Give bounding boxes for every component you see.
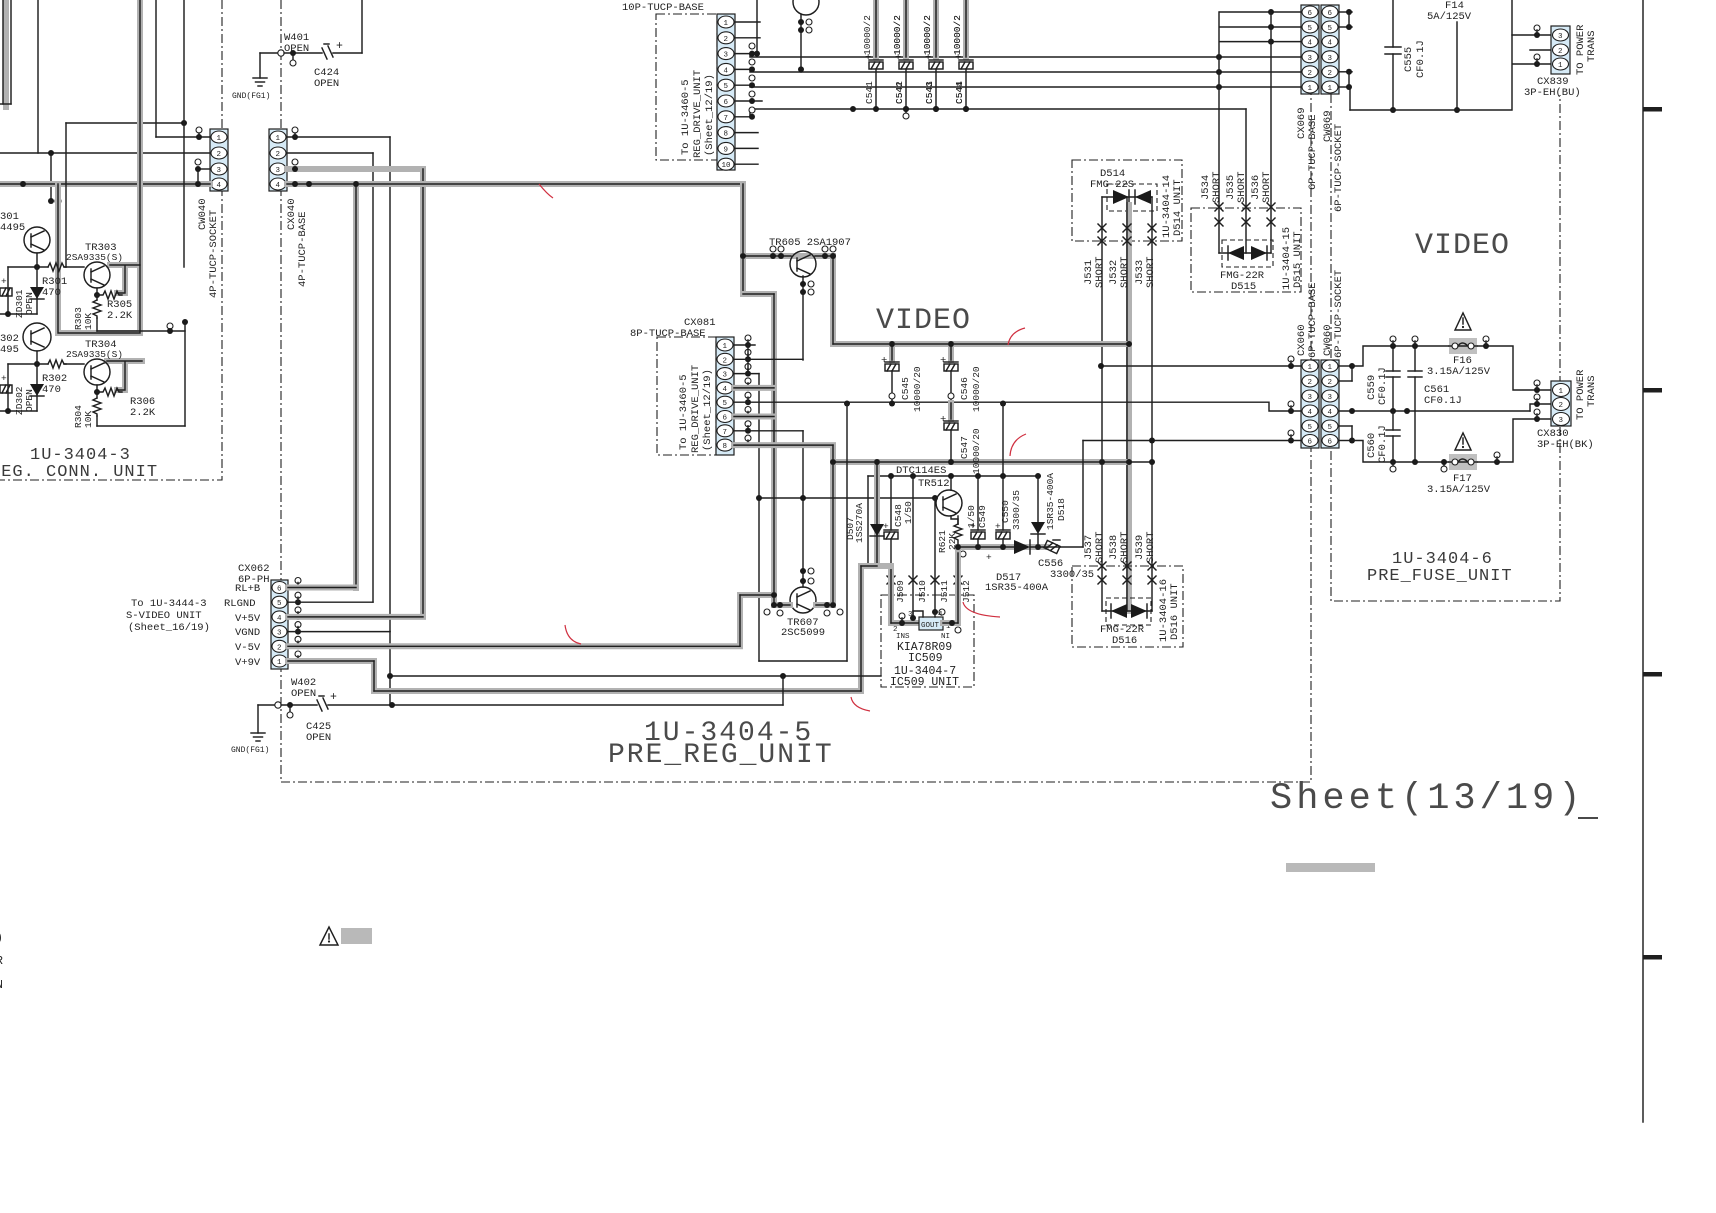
svg-text:To 1U-3444-3: To 1U-3444-3	[131, 598, 207, 610]
svg-text:10000/2: 10000/2	[892, 15, 903, 55]
svg-text:1SS270A: 1SS270A	[854, 503, 865, 543]
svg-text:2: 2	[723, 357, 728, 365]
svg-text:FMG-22S: FMG-22S	[1090, 179, 1134, 191]
svg-text:+: +	[1, 373, 7, 384]
svg-text:3.15A/125V: 3.15A/125V	[1427, 484, 1491, 496]
svg-text:4: 4	[1328, 40, 1333, 48]
svg-text:2.2K: 2.2K	[107, 310, 133, 322]
svg-text:3: 3	[723, 372, 728, 380]
svg-text:GOUT: GOUT	[921, 622, 940, 630]
svg-text:R: R	[0, 955, 3, 968]
svg-text:4: 4	[276, 182, 281, 190]
svg-text:SHORT: SHORT	[1094, 531, 1106, 563]
svg-text:VIDEO: VIDEO	[1415, 229, 1510, 263]
svg-text:+: +	[1, 276, 7, 287]
svg-text:S-VIDEO UNIT: S-VIDEO UNIT	[126, 610, 202, 622]
svg-text:J511: J511	[939, 580, 950, 603]
svg-text:3P-EH(BK): 3P-EH(BK)	[1537, 439, 1594, 451]
svg-text:SHORT: SHORT	[1145, 256, 1157, 288]
svg-text:(Sheet_12/19): (Sheet_12/19)	[704, 74, 716, 156]
svg-text:SHORT: SHORT	[1094, 256, 1106, 288]
svg-text:2: 2	[1328, 70, 1333, 78]
svg-text:2SA9335(S): 2SA9335(S)	[66, 252, 123, 263]
svg-text:C547: C547	[959, 436, 970, 459]
svg-text:2: 2	[277, 644, 282, 652]
svg-text:8P-TUCP-BASE: 8P-TUCP-BASE	[630, 328, 706, 340]
svg-text:5: 5	[1308, 25, 1313, 33]
svg-text:C542: C542	[894, 81, 905, 104]
svg-text:(Sheet_16/19): (Sheet_16/19)	[128, 622, 210, 634]
svg-text:1/50: 1/50	[966, 505, 977, 528]
svg-text:1: 1	[277, 659, 282, 667]
svg-text:6P-TUCP-BASE: 6P-TUCP-BASE	[1307, 282, 1319, 358]
svg-text:3: 3	[277, 630, 282, 638]
svg-text:3300/35: 3300/35	[1011, 490, 1022, 530]
svg-text:SHORT: SHORT	[1261, 171, 1273, 203]
svg-text:4495: 4495	[0, 222, 25, 234]
svg-text:C541: C541	[864, 81, 875, 104]
svg-text:C545: C545	[900, 377, 911, 400]
svg-text:CF0.1J: CF0.1J	[1415, 40, 1427, 78]
svg-text:C550: C550	[1000, 500, 1011, 523]
svg-text:2: 2	[1328, 379, 1333, 387]
svg-text:GND(FG1): GND(FG1)	[232, 92, 270, 101]
svg-text:6: 6	[277, 586, 282, 594]
svg-text:CF0.1J: CF0.1J	[1424, 395, 1462, 407]
svg-text:+: +	[881, 355, 887, 367]
svg-text:GND(FG1): GND(FG1)	[231, 746, 269, 755]
svg-text:6: 6	[723, 415, 728, 423]
svg-text:4P-TUCP-BASE: 4P-TUCP-BASE	[297, 211, 309, 287]
svg-text:1: 1	[724, 20, 729, 28]
svg-text:J512: J512	[961, 580, 972, 603]
svg-text:OPEN: OPEN	[306, 732, 331, 744]
svg-text:C543: C543	[924, 81, 935, 104]
svg-text:4P-TUCP-SOCKET: 4P-TUCP-SOCKET	[208, 210, 220, 298]
svg-text:RLGND: RLGND	[224, 598, 256, 610]
svg-text:J509: J509	[895, 580, 906, 603]
svg-text:To 1U-3460-5: To 1U-3460-5	[678, 374, 690, 450]
svg-text:Sheet(13/19): Sheet(13/19)	[1270, 778, 1584, 820]
svg-text:1: 1	[1328, 85, 1333, 93]
svg-text:D515: D515	[1231, 281, 1256, 293]
svg-text:N: N	[0, 979, 3, 992]
svg-text:D518: D518	[1056, 498, 1067, 521]
svg-text:4: 4	[1328, 409, 1333, 417]
svg-text:+: +	[336, 40, 343, 53]
svg-text:4: 4	[1308, 40, 1313, 48]
svg-text:3300/35: 3300/35	[1050, 569, 1094, 581]
svg-text:6: 6	[724, 99, 729, 107]
svg-text:470: 470	[42, 384, 61, 396]
svg-text:(Sheet_12/19): (Sheet_12/19)	[702, 369, 714, 451]
svg-text:C546: C546	[959, 377, 970, 400]
svg-text:1SR35-400A: 1SR35-400A	[1045, 473, 1056, 530]
svg-text:495: 495	[0, 344, 19, 356]
svg-text:To 1U-3460-5: To 1U-3460-5	[680, 79, 692, 155]
svg-text:REG. CONN. UNIT: REG. CONN. UNIT	[0, 463, 158, 482]
svg-text:3: 3	[724, 52, 729, 60]
svg-text:TRANS: TRANS	[1586, 30, 1598, 62]
svg-text:6P-TUCP-SOCKET: 6P-TUCP-SOCKET	[1333, 270, 1345, 358]
svg-text:10000/20: 10000/20	[912, 366, 923, 412]
svg-text:3: 3	[1308, 394, 1313, 402]
svg-text:5: 5	[724, 83, 729, 91]
svg-text:V+9V: V+9V	[235, 657, 261, 669]
svg-text:+: +	[330, 691, 337, 704]
svg-text:D516: D516	[1112, 635, 1137, 647]
svg-text:4: 4	[723, 386, 728, 394]
svg-text:D516 UNIT: D516 UNIT	[1169, 583, 1181, 640]
svg-text:10000/2: 10000/2	[862, 15, 873, 55]
svg-text:1: 1	[1308, 85, 1313, 93]
svg-text:TRANS: TRANS	[1586, 375, 1598, 407]
svg-text:REG_DRIVE_UNIT: REG_DRIVE_UNIT	[690, 365, 702, 453]
svg-text:C549: C549	[977, 505, 988, 528]
svg-text:DTC114ES: DTC114ES	[896, 465, 946, 477]
svg-text:+: +	[986, 552, 992, 563]
svg-text:SHORT: SHORT	[1119, 256, 1131, 288]
svg-text:2: 2	[1308, 70, 1313, 78]
svg-text:VIDEO: VIDEO	[876, 304, 971, 338]
svg-text:6P-TUCP-SOCKET: 6P-TUCP-SOCKET	[1333, 124, 1345, 212]
svg-text:C544: C544	[954, 81, 965, 104]
svg-text:2: 2	[1558, 48, 1563, 56]
svg-text:C555: C555	[1403, 47, 1415, 72]
svg-text:3: 3	[1559, 417, 1564, 425]
svg-text:D514 UNIT: D514 UNIT	[1172, 179, 1184, 236]
svg-text:2SA9335(S): 2SA9335(S)	[66, 349, 123, 360]
svg-text:2.2K: 2.2K	[130, 407, 156, 419]
svg-text:470: 470	[42, 287, 61, 299]
svg-text:6: 6	[1328, 439, 1333, 447]
svg-text:10: 10	[722, 162, 732, 170]
svg-text:10000/20: 10000/20	[971, 366, 982, 412]
svg-text:NI: NI	[941, 633, 950, 641]
svg-text:10000/2: 10000/2	[922, 15, 933, 55]
svg-text:3: 3	[1308, 55, 1313, 63]
svg-text:10K: 10K	[83, 313, 94, 330]
svg-text:V-5V: V-5V	[235, 642, 261, 654]
svg-text:1: 1	[217, 135, 222, 143]
svg-text:RL+B: RL+B	[235, 583, 260, 595]
svg-text:IC509: IC509	[908, 652, 943, 665]
svg-text:PRE_FUSE_UNIT: PRE_FUSE_UNIT	[1367, 567, 1513, 586]
svg-text:IC509 UNIT: IC509 UNIT	[890, 676, 959, 689]
svg-text:2: 2	[276, 151, 281, 159]
svg-text:TR512: TR512	[918, 478, 950, 490]
svg-text:3.15A/125V: 3.15A/125V	[1427, 366, 1491, 378]
svg-text:1: 1	[1559, 388, 1564, 396]
svg-text:3: 3	[1328, 394, 1333, 402]
svg-text:1: 1	[1308, 364, 1313, 372]
svg-text:OPEN: OPEN	[24, 389, 35, 412]
svg-text:SHORT: SHORT	[1145, 531, 1157, 563]
svg-text:2: 2	[1308, 379, 1313, 387]
svg-text:SHORT: SHORT	[1236, 171, 1248, 203]
svg-text:5: 5	[1308, 424, 1313, 432]
svg-text:10P-TUCP-BASE: 10P-TUCP-BASE	[622, 2, 704, 14]
svg-text:5: 5	[723, 400, 728, 408]
svg-text:2: 2	[1559, 402, 1564, 410]
svg-text:4: 4	[1308, 409, 1313, 417]
svg-text:10000/2: 10000/2	[952, 15, 963, 55]
svg-text:3: 3	[1328, 55, 1333, 63]
svg-text:7: 7	[724, 115, 729, 123]
svg-text:4: 4	[724, 67, 729, 75]
svg-text:SHORT: SHORT	[1211, 171, 1223, 203]
svg-text:1: 1	[276, 135, 281, 143]
svg-text:OPEN: OPEN	[24, 292, 35, 315]
svg-text:5: 5	[1328, 25, 1333, 33]
svg-text:D515 UNIT: D515 UNIT	[1292, 231, 1304, 288]
svg-text:CF0.1J: CF0.1J	[1377, 425, 1389, 463]
svg-text:4: 4	[277, 615, 282, 623]
svg-text:OPEN: OPEN	[291, 688, 316, 700]
svg-text:1: 1	[1558, 62, 1563, 70]
svg-text:6: 6	[1308, 439, 1313, 447]
svg-text:4: 4	[217, 182, 222, 190]
svg-text:8: 8	[724, 131, 729, 139]
svg-text:1: 1	[1328, 364, 1333, 372]
svg-text:6: 6	[1328, 10, 1333, 18]
svg-text:2: 2	[217, 151, 222, 159]
svg-text:3P-EH(BU): 3P-EH(BU)	[1524, 87, 1581, 99]
svg-text:6: 6	[1308, 10, 1313, 18]
svg-text:3: 3	[276, 167, 281, 175]
svg-text:PRE_REG_UNIT: PRE_REG_UNIT	[608, 740, 834, 771]
svg-text:5A/125V: 5A/125V	[1427, 11, 1472, 23]
svg-text:INS: INS	[896, 633, 910, 641]
svg-text:10000/20: 10000/20	[971, 428, 982, 474]
svg-text:OPEN: OPEN	[314, 78, 339, 90]
svg-text:1SR35-400A: 1SR35-400A	[985, 582, 1049, 594]
svg-text:4: 4	[938, 611, 943, 619]
svg-text:3: 3	[217, 167, 222, 175]
svg-text:10K: 10K	[83, 411, 94, 428]
svg-text:J510: J510	[917, 580, 928, 603]
svg-text:3: 3	[908, 611, 913, 619]
svg-text:5: 5	[1328, 424, 1333, 432]
svg-text:5: 5	[277, 600, 282, 608]
svg-text:8: 8	[723, 443, 728, 451]
svg-text:SHORT: SHORT	[1119, 531, 1131, 563]
svg-text:VGND: VGND	[235, 627, 260, 639]
svg-text:1: 1	[723, 343, 728, 351]
svg-text:6P-TUCP-BASE: 6P-TUCP-BASE	[1307, 114, 1319, 190]
svg-text:9: 9	[724, 146, 729, 154]
svg-text:2: 2	[724, 36, 729, 44]
svg-text:2SC5099: 2SC5099	[781, 627, 825, 639]
svg-text:3: 3	[1558, 33, 1563, 41]
svg-text:V+5V: V+5V	[235, 613, 261, 625]
svg-text:): )	[0, 932, 3, 945]
svg-text:7: 7	[723, 429, 728, 437]
svg-text:CF0.1J: CF0.1J	[1377, 367, 1389, 405]
svg-text:TR605 2SA1907: TR605 2SA1907	[769, 237, 851, 249]
svg-text:REG_DRIVE_UNIT: REG_DRIVE_UNIT	[692, 70, 704, 158]
